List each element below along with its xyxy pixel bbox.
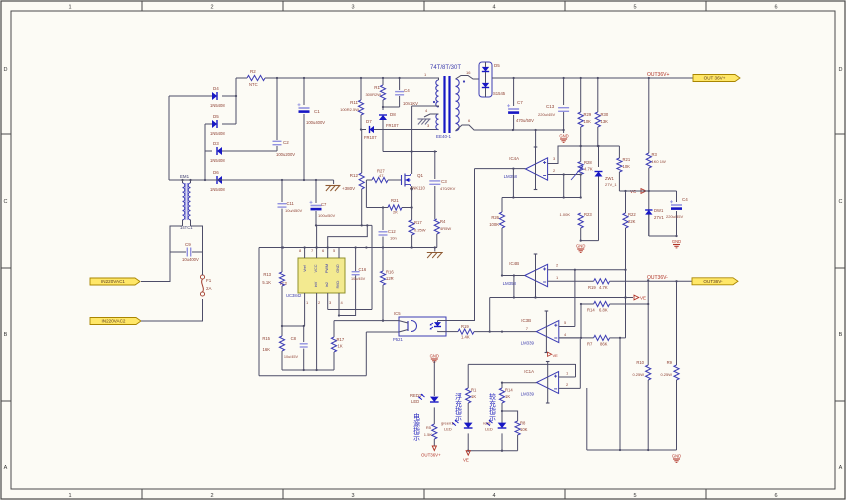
wire pin4 to C16 [339, 275, 356, 315]
svg-text:R23: R23 [584, 212, 592, 217]
svg-text:D5: D5 [213, 114, 219, 119]
svg-text:R1: R1 [471, 388, 477, 393]
comparator IC3A [537, 372, 559, 394]
svg-text:Q1: Q1 [417, 173, 424, 178]
resistor R28 [580, 146, 582, 162]
opto IC5 outline [399, 317, 446, 336]
svg-text:Rt/Ct: Rt/Ct [336, 281, 340, 289]
resistor R9 [676, 281, 678, 365]
wire pin3 row [328, 309, 372, 311]
svg-text:源: 源 [413, 419, 420, 428]
svg-text:470u/50V: 470u/50V [516, 118, 534, 123]
wire opto BR to R19 [446, 331, 458, 333]
svg-text:C: C [4, 199, 8, 205]
resistor R3 [648, 78, 650, 153]
IC3A output wire [502, 382, 537, 384]
IC2 pin6 route [328, 225, 368, 258]
svg-text:4: 4 [492, 493, 495, 499]
svg-text:R9: R9 [667, 360, 673, 365]
svg-text:16K: 16K [263, 347, 271, 352]
IC3A power stubs [547, 362, 549, 404]
wire sec gnd to IC4A stub [535, 130, 537, 147]
opto IC5 led [434, 322, 441, 326]
transformer T1 aux pins [424, 114, 439, 117]
svg-text:C4: C4 [404, 88, 410, 93]
svg-text:0.25W: 0.25W [414, 228, 426, 233]
svg-text:4.7K: 4.7K [599, 285, 608, 290]
svg-text:74T/8T/30T: 74T/8T/30T [430, 65, 461, 71]
svg-text:2A: 2A [206, 286, 212, 291]
resistor R4 [434, 219, 439, 234]
net VE arrow [634, 295, 639, 300]
svg-text:OUT36V+: OUT36V+ [421, 453, 441, 458]
svg-text:R13: R13 [263, 272, 271, 277]
IC4B minus input wire [548, 280, 594, 282]
capacitor C7 output [513, 78, 515, 106]
svg-text:GND: GND [430, 354, 439, 359]
wire opto anode bottom [438, 331, 447, 333]
wire EM1 left pin up [182, 180, 184, 183]
resistor R23 [578, 213, 583, 228]
svg-text:PWM: PWM [325, 264, 329, 273]
svg-text:C13: C13 [546, 104, 555, 109]
transformer T1 secondary winding [456, 79, 460, 131]
svg-text:IC3B: IC3B [521, 318, 531, 323]
lower return rail [259, 375, 366, 377]
wire bridge plus riser [235, 78, 237, 124]
svg-text:R30: R30 [601, 112, 609, 117]
wire gnd to LED1 [433, 361, 435, 396]
wire EM1 pins down [182, 220, 184, 226]
wire R8 top [502, 411, 518, 421]
transformer T1 secondary bottom pin [456, 125, 481, 131]
svg-text:R19: R19 [588, 285, 596, 290]
svg-text:LED: LED [411, 399, 419, 404]
border zone ticks [141, 1, 143, 11]
svg-text:D6: D6 [213, 170, 219, 175]
zener DW1 [645, 210, 652, 215]
svg-text:1: 1 [68, 5, 71, 11]
resistor R14 led [499, 388, 504, 403]
capacitor C7 aux [315, 180, 317, 203]
svg-text:10u/450V: 10u/450V [285, 208, 302, 213]
snubber C3 [434, 152, 436, 180]
svg-text:FR107: FR107 [364, 135, 377, 140]
capacitor C8 [303, 326, 305, 342]
resistor R2 NTC [236, 77, 247, 79]
svg-text:C7: C7 [321, 202, 327, 207]
svg-text:RED1: RED1 [410, 393, 422, 398]
transformer T1 primary winding [436, 80, 439, 107]
led LED1 [430, 397, 439, 402]
svg-text:D: D [839, 67, 843, 73]
transformer T1 primary pins [437, 78, 439, 80]
svg-text:2: 2 [210, 493, 213, 499]
resistor R27 gate [366, 179, 372, 181]
svg-text:1N5408: 1N5408 [210, 103, 225, 108]
capacitor C1 [303, 78, 305, 105]
svg-text:LM339: LM339 [521, 392, 535, 397]
svg-text:R12: R12 [350, 173, 359, 178]
svg-text:GND: GND [559, 134, 568, 139]
svg-text:0.25W: 0.25W [660, 372, 672, 377]
IC3B plus input wire [559, 326, 575, 328]
svg-text:C4: C4 [682, 197, 688, 202]
wire opto cathode top [438, 320, 447, 322]
svg-text:12R: 12R [386, 276, 394, 281]
svg-text:R2: R2 [250, 69, 256, 74]
svg-text:C1: C1 [314, 109, 320, 114]
svg-text:IC1A: IC1A [524, 369, 534, 374]
wire vc cap top [649, 190, 677, 192]
svg-text:1K: 1K [471, 394, 476, 399]
svg-text:R28: R28 [584, 160, 592, 165]
svg-text:3: 3 [351, 493, 354, 499]
svg-text:R16: R16 [386, 270, 394, 275]
svg-text:LM358: LM358 [503, 281, 517, 286]
svg-text:R19: R19 [461, 324, 469, 329]
wire R16 node to opto [334, 320, 399, 322]
svg-text:R17: R17 [414, 220, 422, 225]
bottom HV rail [169, 179, 334, 181]
capacitor C13 [563, 78, 565, 105]
secondary polarity dot [463, 80, 465, 82]
svg-text:R3: R3 [652, 152, 658, 157]
IC4B plus input wire [548, 269, 626, 271]
svg-text:R14: R14 [505, 388, 513, 393]
diode D7 [361, 129, 366, 131]
svg-text:充: 充 [455, 399, 462, 408]
chassis ground +380V [333, 180, 335, 184]
led bottom rail [468, 450, 517, 452]
VC rail [619, 190, 648, 192]
svg-text:100u400V: 100u400V [306, 120, 325, 125]
wire C9 left [170, 251, 186, 253]
svg-text:1N5408: 1N5408 [210, 158, 225, 163]
capacitor C2 [276, 78, 278, 140]
svg-text:1.4K: 1.4K [461, 335, 470, 340]
resistor R8 [515, 421, 520, 435]
svg-text:R26: R26 [491, 215, 499, 220]
VE rail [490, 297, 633, 299]
svg-text:D5: D5 [494, 63, 500, 68]
svg-text:inV: inV [314, 281, 318, 287]
svg-text:27V_1: 27V_1 [605, 182, 617, 187]
wire R27 left down [365, 180, 367, 208]
svg-text:IN220VAC1: IN220VAC1 [101, 279, 125, 284]
junction dots top rail [276, 77, 278, 79]
resistor R11 [360, 78, 362, 100]
svg-text:充: 充 [489, 399, 496, 408]
transformer T1 aux winding [436, 114, 439, 130]
svg-text:DW1: DW1 [654, 208, 664, 213]
resistor R15 [281, 326, 283, 336]
svg-text:300R2W: 300R2W [365, 92, 381, 97]
svg-text:86K: 86K [600, 342, 608, 347]
diode D3 [205, 150, 212, 152]
IC4B power stubs [535, 254, 537, 298]
svg-text:6: 6 [774, 5, 777, 11]
svg-text:R15: R15 [262, 336, 270, 341]
resistor R22 [625, 191, 627, 213]
svg-text:UC3842: UC3842 [286, 293, 302, 298]
diode D4 [169, 95, 212, 97]
svg-text:C2: C2 [283, 140, 289, 145]
diode D8 [382, 107, 384, 110]
svg-text:C9: C9 [185, 242, 191, 247]
wire divider to R21 [618, 146, 620, 158]
svg-text:D3: D3 [213, 141, 219, 146]
wire drain riser [411, 106, 413, 152]
capacitor C12 [382, 208, 384, 231]
svg-text:IC5: IC5 [394, 311, 401, 316]
filter choke EM1 left winding [183, 183, 185, 220]
wire C9 right up to EM1 [191, 226, 203, 252]
zener ZW1 [598, 146, 600, 167]
drain node rail [383, 151, 437, 153]
svg-text:D7: D7 [366, 119, 372, 124]
svg-text:ZW1: ZW1 [605, 176, 615, 181]
resistor R29 [580, 78, 582, 112]
svg-text:3: 3 [351, 5, 354, 11]
primary polarity dot [433, 101, 435, 103]
svg-text:220u/45V: 220u/45V [538, 112, 555, 117]
resistor R19 fb [458, 329, 474, 334]
resistor R30 [597, 78, 599, 112]
vcc rail [316, 224, 372, 226]
svg-text:47: 47 [379, 173, 384, 178]
gate divider rail [366, 207, 388, 209]
resistor R17 fb [333, 321, 335, 337]
svg-text:LM339: LM339 [521, 341, 535, 346]
IC4A output wire [475, 168, 526, 170]
svg-text:R11: R11 [350, 100, 358, 105]
svg-text:VE: VE [553, 353, 559, 358]
wire fuse top to C9 right lead [202, 252, 204, 275]
IC4A minus input wire [548, 174, 581, 176]
svg-text:EM1: EM1 [180, 174, 190, 179]
svg-text:16: 16 [466, 70, 471, 75]
capacitor C16 [355, 248, 357, 272]
comparator IC3B [536, 321, 558, 343]
svg-text:示: 示 [489, 414, 496, 422]
svg-text:13K: 13K [601, 119, 609, 124]
filter choke EM1 right winding [188, 183, 190, 220]
svg-text:R17: R17 [337, 337, 345, 342]
rectifier D5 outline [479, 62, 492, 97]
feedback rail [502, 197, 581, 199]
svg-text:LM358: LM358 [504, 174, 518, 179]
svg-text:10n: 10n [390, 236, 397, 241]
svg-text:4.7K: 4.7K [584, 167, 593, 172]
resistor R16 [382, 248, 384, 272]
svg-text:GND: GND [672, 239, 681, 244]
port OUT 36V+ [693, 75, 740, 82]
svg-text:IC4B: IC4B [509, 261, 519, 266]
wire minus drop [563, 175, 565, 198]
svg-text:10u400V: 10u400V [182, 257, 199, 262]
svg-text:VCC: VCC [314, 264, 318, 272]
primary chassis ground [427, 252, 443, 254]
svg-text:C11: C11 [287, 201, 295, 206]
svg-text:C16: C16 [359, 267, 367, 272]
svg-text:OUT 36V+: OUT 36V+ [704, 76, 726, 81]
svg-text:R1: R1 [374, 85, 380, 90]
GND at C13 [563, 130, 565, 133]
resistor R17 sense [409, 220, 414, 235]
opamp IC4B [525, 264, 548, 286]
svg-text:1N5408: 1N5408 [210, 187, 225, 192]
svg-text:OUT36V+: OUT36V+ [647, 72, 669, 78]
svg-text:示: 示 [455, 414, 462, 422]
primary ground rail [259, 247, 437, 249]
resistor R21 gate [388, 205, 402, 210]
box row pin1 [282, 325, 305, 327]
transformer T1 secondary top pin [456, 76, 480, 80]
fuse F1 [200, 275, 204, 279]
svg-text:VE: VE [463, 458, 469, 463]
IC2 left column [258, 248, 260, 376]
capacitor C9 [186, 248, 188, 257]
secondary ground rail [480, 129, 564, 131]
svg-text:D8: D8 [390, 112, 396, 117]
svg-text:F1: F1 [206, 278, 212, 283]
svg-text:2: 2 [210, 5, 213, 11]
IC2 top pin stubs [304, 248, 306, 259]
svg-text:C3: C3 [441, 179, 447, 184]
svg-text:EE40-1: EE40-1 [436, 134, 452, 139]
wire AC rail mid [204, 124, 206, 180]
resistor R13 [281, 271, 283, 273]
wire EM1 right pin up [190, 180, 192, 183]
wire IC4B out riser [489, 298, 491, 332]
svg-text:B: B [4, 332, 8, 338]
wire clamp node [383, 106, 400, 108]
wire opto TR riser [446, 169, 475, 321]
svg-text:P521: P521 [393, 337, 403, 342]
resistor R1 led [466, 388, 471, 403]
svg-text:C8: C8 [291, 336, 297, 341]
wire AC rail left [168, 96, 170, 180]
rectifier D5 diode a [482, 67, 489, 72]
wire R14 col drop [580, 304, 582, 338]
svg-text:1K: 1K [338, 344, 343, 349]
svg-text:5.1K: 5.1K [262, 280, 271, 285]
svg-text:A: A [839, 465, 843, 471]
svg-text:R21: R21 [391, 198, 399, 203]
IC4B output wire [502, 275, 525, 277]
resistor R5 [432, 424, 437, 439]
opto IC5 transistor [411, 321, 417, 332]
wire port2 to fuse [141, 299, 203, 321]
wire Q1 source down [411, 186, 413, 220]
svg-text:1: 1 [68, 493, 71, 499]
gnd row R23 [581, 240, 599, 242]
svg-text:470/2KV: 470/2KV [440, 186, 456, 191]
svg-text:10K: 10K [584, 119, 592, 124]
IC4A plus input wire [548, 146, 620, 164]
svg-text:LED: LED [444, 427, 452, 432]
port OUT 36V- [692, 278, 738, 285]
capacitor C4 vc [676, 191, 678, 202]
diode D5 bridge [205, 123, 212, 125]
svg-text:GND: GND [336, 264, 340, 273]
IC3A plus input wire [559, 376, 576, 378]
resistor R21 [617, 158, 622, 172]
svg-text:100u/50V: 100u/50V [318, 213, 335, 218]
svg-text:R22: R22 [628, 212, 636, 217]
svg-text:VE: VE [640, 296, 646, 301]
led LED3 [498, 423, 507, 428]
net VE stub [548, 352, 552, 356]
svg-text:6.8K: 6.8K [599, 308, 608, 313]
wire port1 to C9 left lead [141, 252, 170, 282]
svg-text:1K: 1K [505, 394, 510, 399]
svg-text:10u/45V: 10u/45V [284, 355, 299, 359]
svg-text:GND: GND [672, 454, 681, 459]
wire C9 left up to EM1 [170, 226, 183, 252]
wire IC3A out to R14 col [501, 383, 503, 388]
svg-text:4: 4 [492, 5, 495, 11]
wire vcc riser [371, 225, 373, 309]
svg-text:R10: R10 [636, 360, 644, 365]
svg-text:S1545: S1545 [493, 91, 506, 96]
svg-text:5: 5 [633, 5, 636, 11]
svg-text:R5: R5 [426, 425, 432, 430]
comparator drop a [586, 388, 588, 450]
wire IC4B out drop [513, 276, 515, 298]
svg-text:1.5K: 1.5K [424, 432, 433, 437]
resistor R10 [647, 280, 649, 365]
rectifier D5 diode b [482, 83, 489, 88]
svg-text:14TC1: 14TC1 [180, 225, 193, 230]
svg-text:浮: 浮 [455, 392, 462, 401]
svg-text:5: 5 [633, 493, 636, 499]
svg-text:OUT36V-: OUT36V- [703, 279, 723, 284]
divider rail [558, 145, 619, 147]
svg-text:4R5W: 4R5W [440, 226, 451, 231]
svg-text:LED: LED [485, 427, 493, 432]
vc ground rail [649, 235, 677, 237]
svg-text:NTC: NTC [249, 82, 258, 87]
capacitor C11 [281, 180, 283, 202]
R28 arrow [571, 166, 583, 180]
resistor R1 [382, 78, 384, 85]
svg-text:Vref: Vref [303, 264, 307, 272]
power port VE bottom [466, 451, 470, 456]
svg-text:电: 电 [413, 412, 420, 421]
resistor R14 cmp [594, 301, 610, 306]
svg-text:1N5408: 1N5408 [210, 131, 225, 136]
svg-text:10u/45V: 10u/45V [351, 277, 366, 281]
svg-text:R7: R7 [587, 342, 593, 347]
svg-text:B: B [839, 332, 843, 338]
IC ground rail [282, 369, 334, 371]
resistor R7 [559, 337, 594, 339]
svg-text:R8: R8 [520, 421, 526, 426]
svg-text:in2: in2 [325, 282, 329, 287]
svg-text:10n1KV: 10n1KV [403, 101, 418, 106]
svg-text:1.00K: 1.00K [560, 212, 571, 217]
svg-text:0.25W: 0.25W [632, 372, 644, 377]
svg-text:C: C [839, 199, 843, 205]
float sense row [468, 363, 575, 365]
svg-text:OUT36V-: OUT36V- [647, 275, 668, 281]
svg-text:A: A [4, 465, 8, 471]
svg-text:10K: 10K [623, 164, 631, 169]
IC3B minus input wire [559, 337, 581, 339]
wire float row to R1 [467, 364, 469, 388]
